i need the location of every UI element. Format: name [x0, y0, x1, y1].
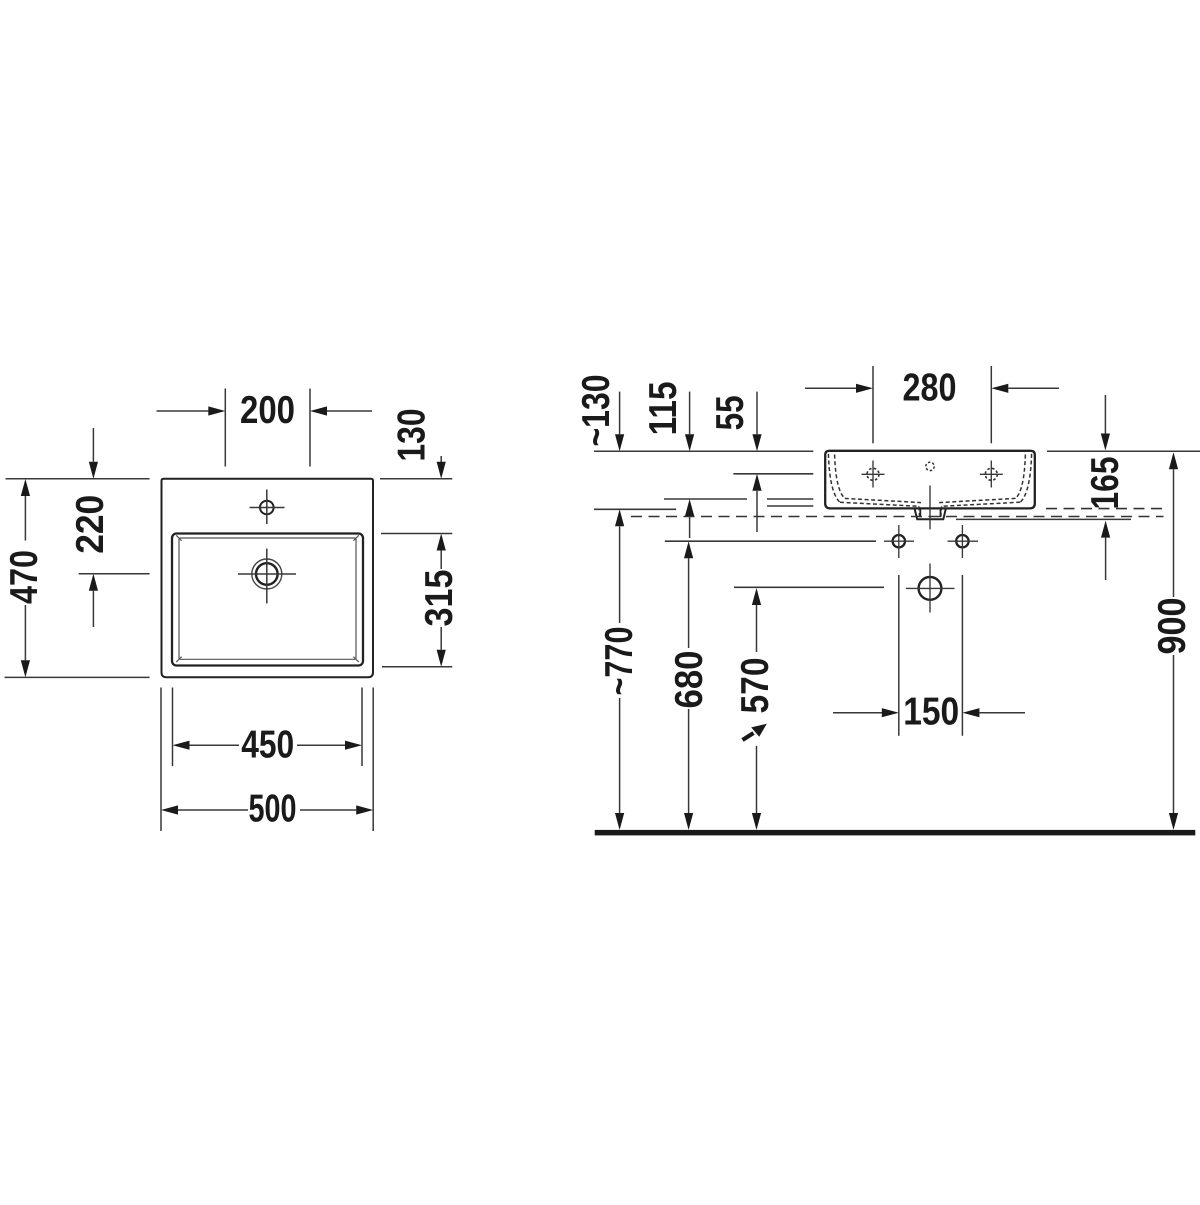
drain inner ring (plan) [256, 563, 278, 585]
inner basin bottom edge (plan) [179, 538, 356, 659]
dimension 280 (tap hole spacing, elevation) [805, 366, 1059, 443]
dimension ~770 (floor to basin bottom) [615, 509, 624, 526]
washbasin outer rim (plan) 500x470 [162, 479, 374, 678]
svg-text:220: 220 [69, 495, 112, 554]
svg-text:900: 900 [1151, 598, 1194, 655]
drain fitting (elevation) [915, 508, 946, 519]
tap hole centerlines [250, 490, 285, 525]
fixing hole right [956, 535, 968, 547]
basin inner bottom level line (115) [664, 499, 813, 506]
tap hole left (elevation) [867, 468, 879, 480]
dimension 470 (overall depth) [5, 479, 150, 678]
tap hole (plan) [260, 501, 274, 515]
overflow hole (elevation) [926, 462, 934, 470]
basin bottom level line (~130) [594, 508, 676, 510]
svg-text:680: 680 [668, 651, 711, 709]
svg-text:130: 130 [391, 409, 434, 462]
connection direction arrow [743, 733, 754, 740]
fixing holes level line (680) [665, 540, 876, 542]
dimension 220 (rim to drain center) [79, 428, 150, 627]
svg-text:470: 470 [3, 550, 46, 604]
svg-text:315: 315 [418, 570, 461, 627]
svg-text:500: 500 [249, 787, 297, 830]
drain centerlines [238, 549, 296, 604]
svg-text:165: 165 [1084, 457, 1127, 510]
svg-text:~130: ~130 [575, 375, 618, 447]
dimension 450 (inner width) [173, 688, 363, 767]
svg-text:150: 150 [903, 691, 959, 734]
wall / rim top line [594, 450, 1200, 452]
dimension 315 (basin depth, plan right) [380, 479, 452, 667]
dimension 500 (overall width) [161, 688, 373, 832]
drain bottom level line (165) [956, 518, 1131, 520]
dimension 165 (rim to drain bottom) [1104, 395, 1106, 434]
tap hole level line (55) [733, 473, 813, 475]
basin interior (hidden lines) [828, 454, 1031, 517]
siphon reference dashed line [631, 516, 1164, 518]
dimension 900 (floor to rim) [1169, 452, 1178, 469]
svg-text:280: 280 [903, 367, 957, 410]
svg-text:200: 200 [240, 389, 295, 432]
waste outlet [919, 577, 942, 600]
drain axis centerline [929, 486, 931, 530]
dimension 570 (floor to waste outlet) [752, 588, 761, 605]
svg-text:570: 570 [734, 658, 777, 714]
svg-text:55: 55 [709, 395, 752, 430]
dimension 150 (fixing hole spacing) [833, 575, 1025, 736]
washbasin body (elevation) [825, 451, 1035, 509]
dimension 680 (floor to fixing holes) [684, 541, 693, 558]
drain outer ring (plan) [252, 559, 282, 589]
svg-text:115: 115 [642, 381, 685, 435]
tap hole right (elevation) [985, 468, 997, 480]
waste outlet level line (570) [734, 586, 884, 588]
basin bottom dashed line (right) [1046, 508, 1164, 510]
inner basin rim (plan) 450x315 [172, 534, 363, 666]
svg-text:~770: ~770 [598, 627, 641, 696]
fixing hole left [893, 535, 905, 547]
floor line [595, 830, 1196, 836]
svg-text:450: 450 [241, 724, 294, 767]
basin corner chamfer ticks [176, 535, 359, 662]
dimension 200 (tap hole spacing) [157, 389, 373, 467]
